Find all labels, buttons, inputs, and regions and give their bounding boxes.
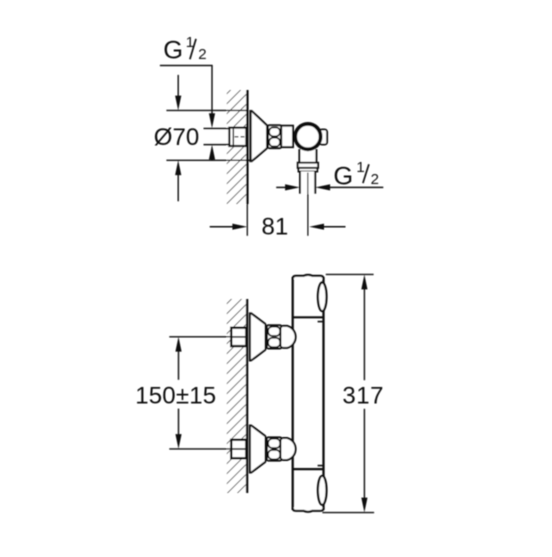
dimension: 81 (wall to outlet axis) xyxy=(210,214,346,241)
svg-text:81: 81 xyxy=(262,214,289,241)
thermostat bar body xyxy=(293,275,324,512)
dimension: G 1/2 (outlet thread label) xyxy=(276,159,383,191)
wall (hatched section), lower view xyxy=(227,299,247,493)
dimension: 150±15 (connection spacing) xyxy=(135,337,231,449)
cap separator, bottom xyxy=(293,468,324,470)
union nut, lower connection xyxy=(267,437,282,460)
svg-text:150±15: 150±15 xyxy=(135,383,216,410)
outlet axis center line xyxy=(307,173,309,236)
escutcheon cone, upper connection xyxy=(249,312,266,361)
escutcheon cone, lower connection xyxy=(249,424,266,473)
end cap at right of body circle xyxy=(320,129,328,144)
wall surface line xyxy=(246,90,248,204)
knob button, top xyxy=(318,283,327,312)
svg-text:Ø70: Ø70 xyxy=(154,124,199,151)
union nut, upper connection xyxy=(267,325,282,348)
cap separator, top xyxy=(293,316,324,318)
svg-text:2: 2 xyxy=(198,46,206,63)
svg-text:2: 2 xyxy=(371,171,379,188)
svg-text:317: 317 xyxy=(342,382,384,409)
wall (hatched section), top view xyxy=(227,90,248,236)
escutcheon cone (side view) xyxy=(249,110,267,162)
svg-text:1: 1 xyxy=(356,159,364,176)
G 1/2 supply nipple pipe behind wall xyxy=(204,129,231,145)
union nut (side view, two facets) xyxy=(268,125,281,148)
outlet pipe (G 1/2 shower hose connection) xyxy=(300,172,315,194)
dimension: Ø70 (escutcheon diameter) xyxy=(154,75,250,201)
inlet boss, upper connection xyxy=(280,326,295,348)
wall extension line (for 81 dim) xyxy=(246,204,248,236)
wall nut (square fitting in wall) xyxy=(229,128,246,146)
knob button, bottom xyxy=(318,476,327,505)
valve body circle (thermostat housing, end view) xyxy=(295,124,320,149)
dimension: 317 (overall height) xyxy=(322,274,384,512)
svg-text:G: G xyxy=(333,163,353,191)
wall surface line xyxy=(246,299,248,493)
inlet boss, lower connection xyxy=(280,438,295,460)
svg-text:G: G xyxy=(163,36,183,64)
collar between nut and valve body xyxy=(281,126,293,147)
outlet nut bands xyxy=(298,163,318,172)
dimension: G 1/2 (top label with leader) xyxy=(160,34,215,160)
outlet elbow neck below circle xyxy=(299,148,316,163)
wall nut, lower connection xyxy=(231,440,246,458)
wall nut, upper connection xyxy=(231,328,246,346)
